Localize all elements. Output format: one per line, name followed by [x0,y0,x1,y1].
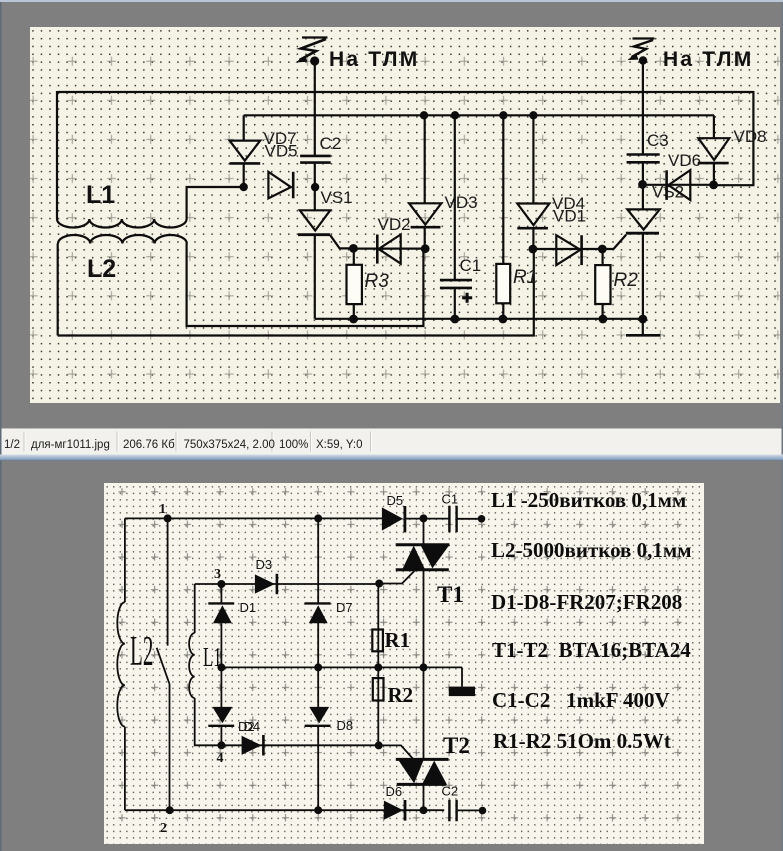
node dot D8 bottom [314,806,322,814]
label R3 [365,271,390,292]
node 1 dot [164,514,172,522]
svg-text:C2: C2 [320,134,342,153]
label D6 [386,784,403,799]
label C3 [647,131,669,150]
svg-text:VS1: VS1 [321,188,353,207]
mid bus [221,666,462,668]
label D7 [336,600,353,615]
node dot T1 top [420,514,428,522]
wire left leg L2 [124,518,126,602]
label L2 [87,255,116,283]
wire lower bus [315,318,643,320]
diode D8 [305,667,331,810]
resistor R1 [496,115,510,319]
wire L1 right to node [187,187,245,219]
svg-text:206.76 Кб: 206.76 Кб [123,439,175,451]
label VD7 [264,129,297,148]
label D8 [337,718,354,733]
terminal dot C1 [478,515,486,523]
svg-text:R1: R1 [513,267,537,288]
diode D2 [242,735,264,756]
node dot VS1 top [311,183,319,191]
svg-text:1/2: 1/2 [4,439,20,451]
label VD8 [734,127,767,146]
spec text line 5 [492,688,670,712]
svg-text:VD5: VD5 [265,142,298,161]
node dot R mid [374,663,382,671]
label node 4 [217,751,224,766]
wire T1 gate [379,571,415,584]
svg-text:T1: T1 [437,582,464,607]
wire VS2 gate [602,235,626,249]
diode D5 [382,506,450,532]
capacitor C2 [300,156,331,187]
svg-text:L1: L1 [86,181,115,209]
switch lower lead [169,684,171,811]
node dot VD8 bottom [709,181,718,190]
diode VD6 [643,170,714,200]
switch blade [157,648,170,684]
diode D3 [255,574,277,594]
node dot C3 bottom [638,180,647,189]
status bar background [2,428,782,455]
svg-text:C3: C3 [647,131,669,150]
node dot T2 bottom [420,806,428,814]
label node 3 [214,567,221,582]
label VD5 [265,142,298,161]
status bar cell separators [24,432,371,452]
node 2 dot [166,806,174,814]
label T2 [443,733,470,758]
label VD4 [552,194,585,213]
label node 1 [159,502,166,517]
label D4 overlapped [244,719,261,734]
node dot D7 mid [314,663,322,671]
node dot C1 top [451,111,459,119]
node dot T1 mid [420,663,428,671]
spec text line 6 [493,729,671,753]
label C2 [320,134,342,153]
spec text line 4 [492,638,691,662]
svg-text:VD8: VD8 [734,127,767,146]
capacitor C1 polarized [440,115,472,319]
svg-text:R1-R2 51Om 0.5Wt: R1-R2 51Om 0.5Wt [493,729,671,753]
spec text line 2 [491,538,692,562]
wire node4 rail [221,744,378,746]
node dot VS2 bottom [638,315,647,324]
terminal dot C2 [479,807,487,815]
svg-text:D7: D7 [336,600,353,615]
antenna arrow 2 [628,39,655,61]
svg-text:750x375x24, 2.00: 750x375x24, 2.00 [184,439,275,451]
label D2 overlapped [238,719,255,734]
label VD2 [378,215,411,234]
label R1 bottom [385,628,411,652]
top canvas (scanned schematic 750x375) [30,27,780,403]
diode VD1 [533,235,602,265]
label L1 bottom [203,642,222,672]
label D1 [240,600,257,615]
node 3 dot [217,580,225,588]
label R1 [513,267,537,288]
node dot antenna 2 [639,56,647,64]
svg-text:D1-D8-FR207;FR208: D1-D8-FR207;FR208 [491,590,682,614]
diode VD5 [268,172,293,199]
diode VD7 [230,115,261,187]
label C1 bottom [442,492,459,507]
svg-text:для-мг1011.jpg: для-мг1011.jpg [31,439,110,451]
svg-text:L1 -250витков 0,1мм: L1 -250витков 0,1мм [491,488,686,512]
node dot R2 bottom [599,315,608,324]
node dot VD3 top [420,111,428,119]
label VD1 [553,207,586,226]
node dot C1 bottom [451,315,460,324]
wire top bus [57,91,753,93]
wire antenna 1 drop [314,61,316,155]
wire left leg lower [124,727,126,811]
wire bottom bus to VD4 column [58,250,534,336]
label На ТЛМ 1 [329,48,419,71]
right window border [782,2,783,851]
inductor L1 arcs [189,633,195,698]
svg-text:D1: D1 [240,600,257,615]
left window border [0,2,2,851]
svg-text:1: 1 [159,502,166,517]
node dot VD1-R2 [598,245,607,254]
node dot antenna 1 [310,56,319,65]
svg-text:D5: D5 [387,493,404,508]
svg-text:2: 2 [160,821,167,836]
top window frame strip [0,0,783,2]
bottom canvas (second schematic 600x361) [104,483,704,844]
node dot VD7-VD5 [240,183,248,191]
label D5 [387,493,404,508]
node dot VS1 gate [349,244,358,253]
node 4 dot [217,741,225,749]
label C2 bottom [442,784,459,799]
svg-text:4: 4 [217,751,224,766]
switch upper lead [167,518,169,645]
diode D1 [208,584,234,667]
label VD6 [668,151,701,170]
svg-text:D8: D8 [337,718,354,733]
wire L1 lower lead [195,698,222,745]
svg-text:R1: R1 [385,628,411,652]
capacitor C3 [627,155,660,185]
label На ТЛМ 2 [663,48,753,71]
svg-text:VD2: VD2 [378,215,411,234]
spec text line 1 [491,488,686,512]
svg-text:На ТЛМ: На ТЛМ [663,48,753,71]
diode D7 [305,518,331,667]
capacitor C1 bottom [449,506,481,532]
resistor R2 bottom [373,667,384,745]
svg-text:L2: L2 [130,628,153,675]
svg-text:3: 3 [214,567,221,582]
label VD3 [445,193,478,212]
svg-text:D6: D6 [386,784,403,799]
wire top rail node1 [125,517,383,519]
antenna arrow 1 [295,38,327,63]
svg-text:VD6: VD6 [668,151,701,170]
node dot gate T1 [375,580,383,588]
diode D6 [384,800,405,821]
svg-text:VD3: VD3 [445,193,478,212]
diode VD2 [353,235,425,264]
wire left vertical [56,91,58,219]
resistor R1 bottom [372,584,383,668]
wire antenna 2 drop [642,61,644,155]
inductor L2 arcs [117,602,125,727]
node dot D1 mid [217,663,225,671]
svg-text:100%: 100% [279,439,308,451]
triac T2 [396,667,449,810]
node dot gate T2 [375,741,383,749]
label C1 [460,256,482,275]
svg-text:C1: C1 [460,256,482,275]
node dot D7 top [314,514,322,522]
svg-text:R2: R2 [388,683,414,707]
svg-text:C2: C2 [442,784,459,799]
svg-text:R3: R3 [365,271,390,292]
label L2 bottom [130,628,153,675]
wire T2 gate [379,745,413,758]
node dot VD4-VD1 [529,245,538,254]
ground bar [449,667,475,696]
resistor R3 [347,248,362,319]
wire bottom rail node2 [125,809,444,811]
node dot R1 bottom [499,315,508,324]
wire L2 left leg [57,244,59,336]
svg-text:L2: L2 [87,255,116,283]
node dot VD2-VD3 [421,244,430,253]
label VS2 [652,183,684,202]
node dot R3 bottom [349,315,358,324]
wire L2 right return [187,244,424,327]
svg-text:C1: C1 [442,492,459,507]
ground VS2 [626,319,660,335]
diode D4 [208,667,234,745]
wire L1 upper lead [194,584,196,633]
capacitor C2 bottom [449,800,482,821]
svg-text:D4: D4 [244,719,261,734]
inductor L2 [58,235,187,244]
diode VD4 [517,115,549,249]
svg-text:C1-C2 1mkF 400V: C1-C2 1mkF 400V [492,688,670,712]
spec text line 3 [491,590,682,614]
svg-text:На ТЛМ: На ТЛМ [329,48,419,71]
thyristor VS1 [298,187,353,319]
svg-text:L2-5000витков 0,1мм: L2-5000витков 0,1мм [491,538,692,562]
label L1 [86,181,115,209]
thyristor VS2 [626,184,660,319]
wire right corner [714,91,754,185]
label node 2 [160,821,167,836]
node dot R1 top [499,111,507,119]
label D3 [256,557,273,572]
blue divider band [0,455,783,461]
node dot VD4 top [529,111,537,119]
label R2 [614,270,639,291]
wire node3 rail [195,583,379,585]
svg-text:X:59, Y:0: X:59, Y:0 [316,439,362,451]
label T1 [437,582,464,607]
svg-text:T1-T2 BTA16;BTA24: T1-T2 BTA16;BTA24 [492,638,691,662]
svg-text:T2: T2 [443,733,470,758]
svg-text:R2: R2 [614,270,639,291]
triac T1 [396,518,450,667]
wire upper bus [244,114,714,116]
label R2 bottom [388,683,414,707]
resistor R2 [595,249,610,319]
label VS1 [321,188,353,207]
diode VD8 [698,115,730,185]
svg-text:D3: D3 [256,557,273,572]
diode VD3 [409,115,441,249]
inductor L1 [57,219,187,228]
svg-text:VD1: VD1 [553,207,586,226]
